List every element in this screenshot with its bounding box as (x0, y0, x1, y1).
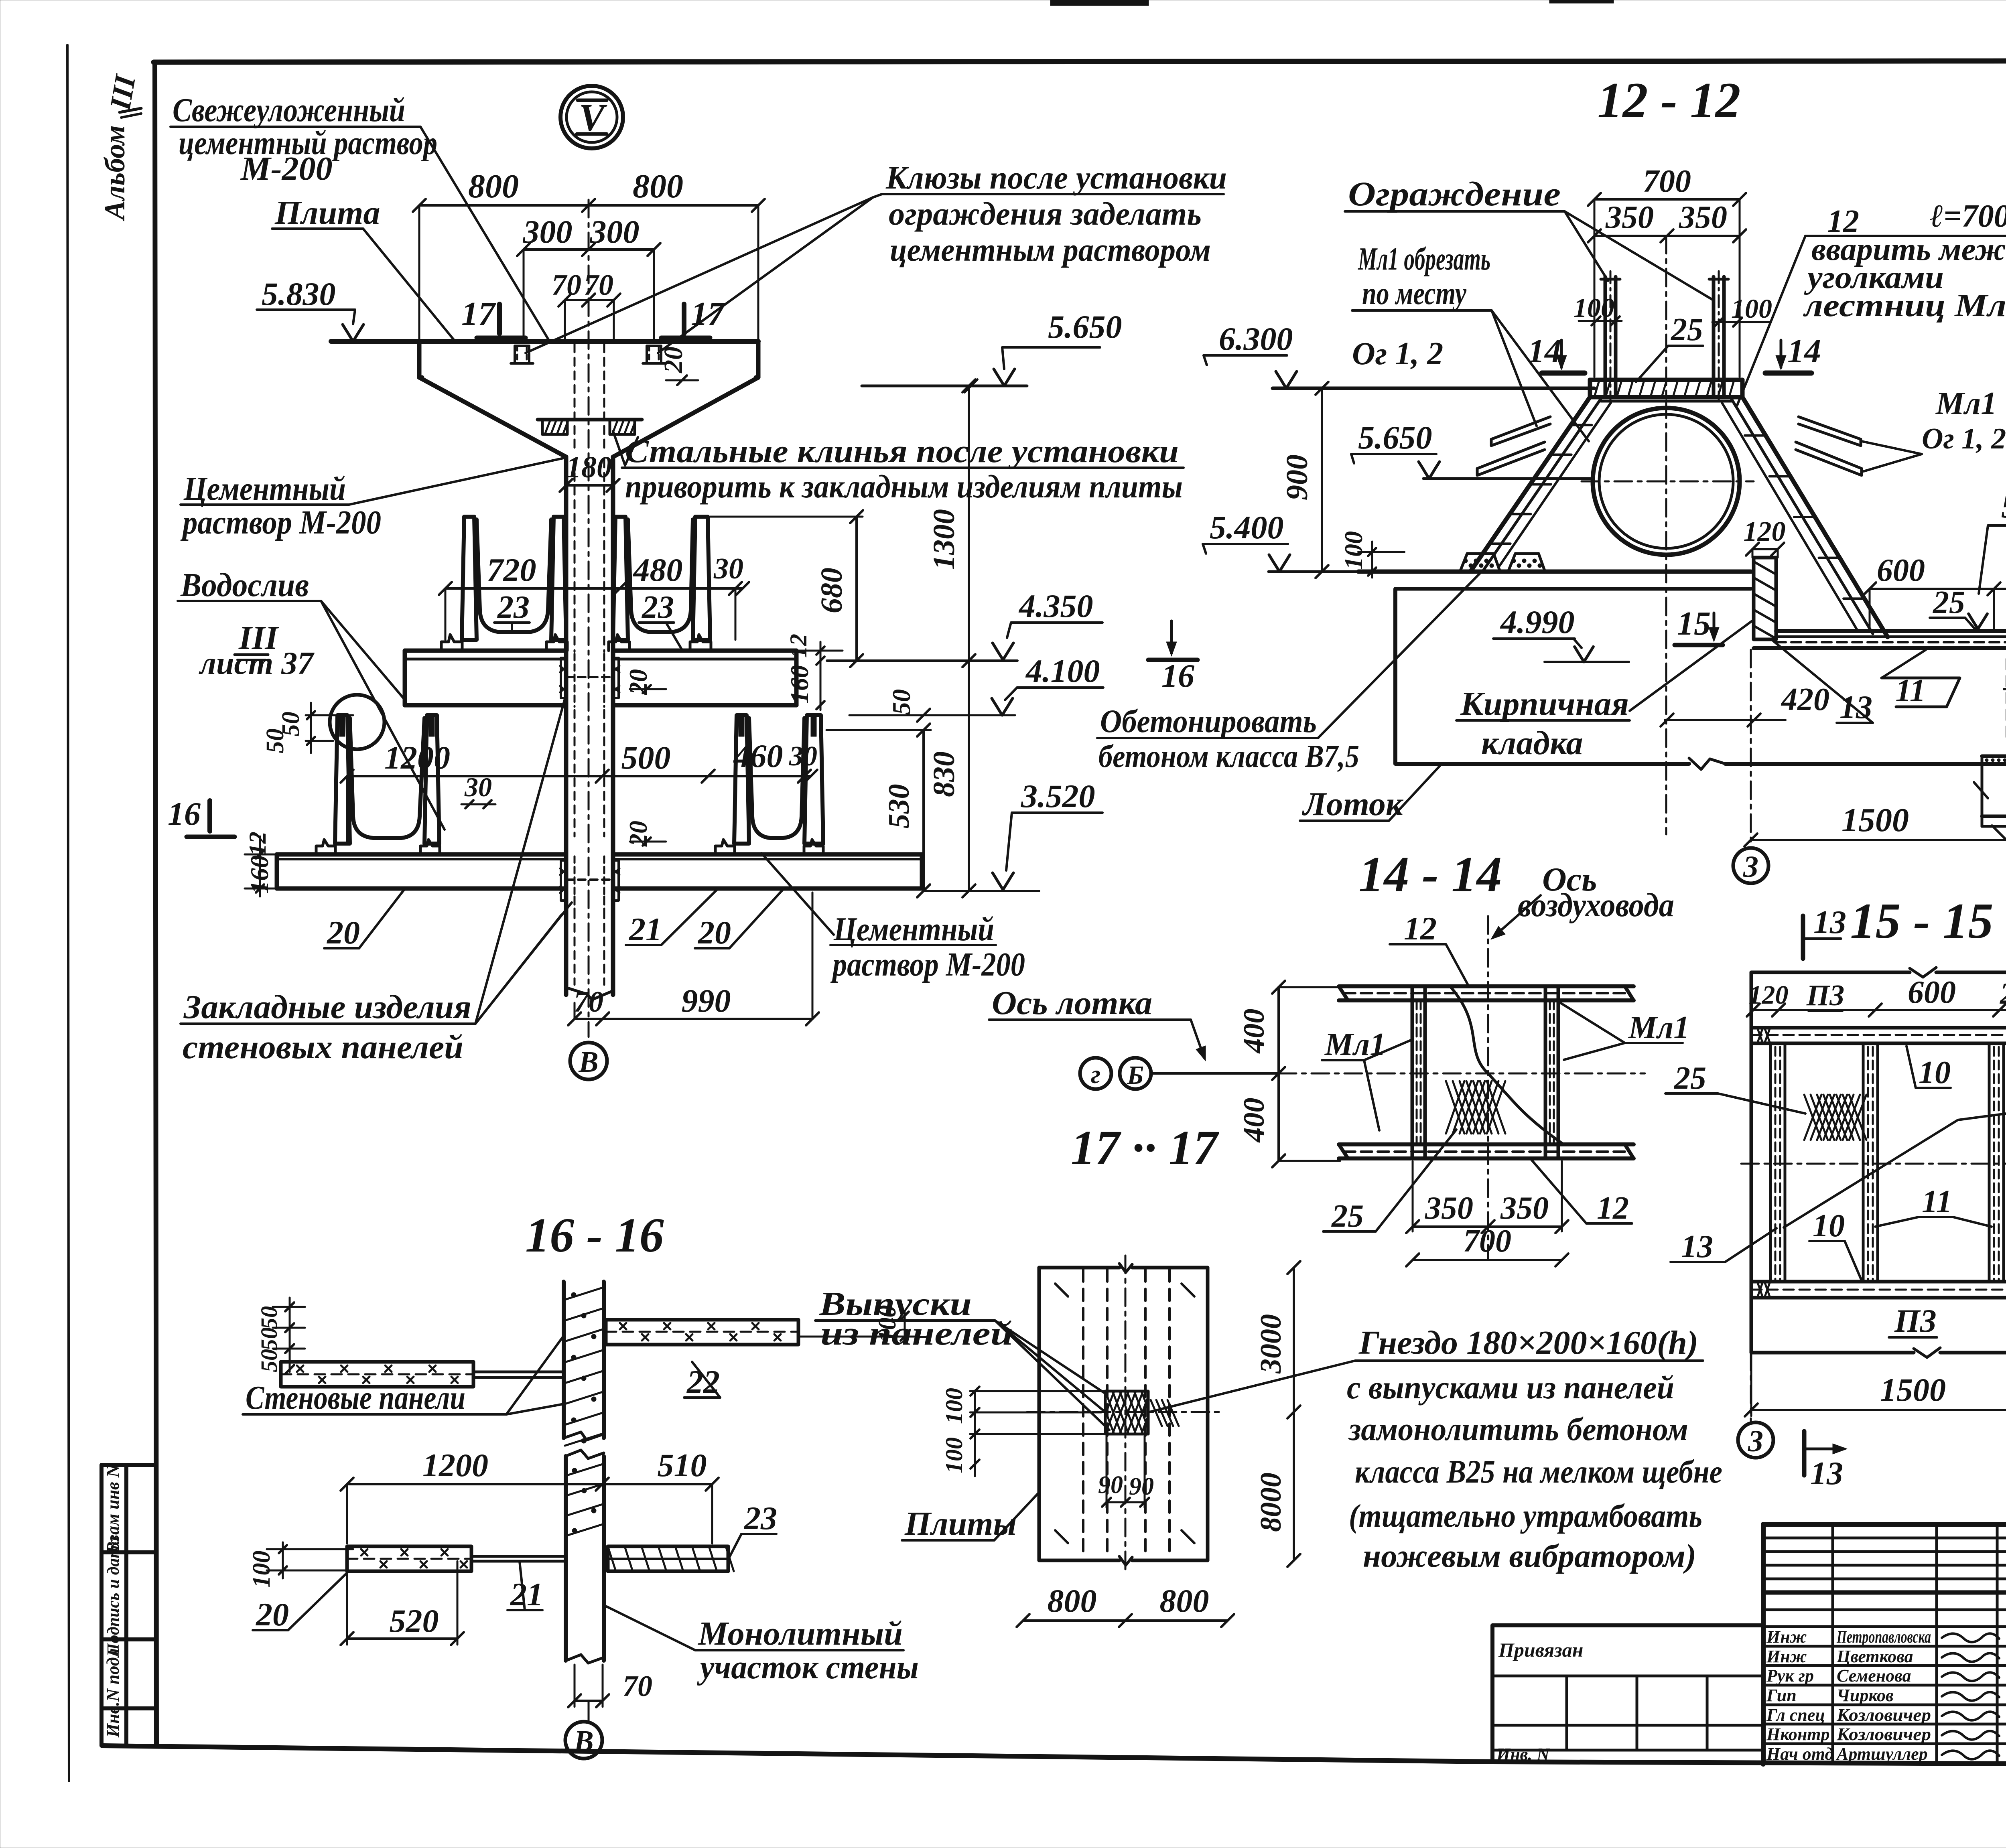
svg-text:600: 600 (1877, 553, 1925, 588)
svg-text:замонолитить бетоном: замонолитить бетоном (1348, 1411, 1688, 1447)
svg-text:700: 700 (1643, 164, 1691, 199)
svg-text:400: 400 (1238, 1098, 1271, 1143)
svg-text:30: 30 (464, 772, 492, 802)
svg-text:Клюзы после установки: Клюзы после установки (885, 159, 1227, 196)
svg-text:кладка: кладка (1481, 724, 1583, 762)
svg-text:М-200: М-200 (240, 150, 333, 187)
svg-text:800: 800 (468, 168, 519, 205)
svg-text:350: 350 (1500, 1191, 1549, 1226)
svg-text:21: 21 (629, 911, 662, 947)
svg-text:Стальные клинья после установк: Стальные клинья после установки (625, 433, 1179, 469)
svg-text:Лоток: Лоток (1302, 785, 1404, 823)
svg-text:Привязан: Привязан (1498, 1639, 1583, 1661)
svg-text:400: 400 (1238, 1009, 1271, 1054)
svg-text:520: 520 (390, 1603, 439, 1639)
svg-text:4.100: 4.100 (1025, 653, 1100, 689)
svg-text:25: 25 (1674, 1061, 1706, 1096)
svg-text:Ог 1, 2: Ог 1, 2 (1922, 422, 2006, 455)
svg-text:раствор М-200: раствор М-200 (830, 946, 1025, 983)
svg-text:Нач отд: Нач отд (1766, 1744, 1833, 1764)
svg-text:16: 16 (168, 795, 201, 832)
svg-text:8000: 8000 (1255, 1473, 1287, 1532)
svg-text:Гип: Гип (1766, 1686, 1797, 1705)
svg-text:раствор М-200: раствор М-200 (181, 504, 381, 541)
svg-text:50: 50 (887, 689, 916, 715)
svg-text:480: 480 (633, 552, 683, 588)
svg-text:350: 350 (1679, 200, 1727, 235)
svg-text:12: 12 (1404, 910, 1437, 947)
svg-text:Ог 1, 2: Ог 1, 2 (1352, 336, 1443, 371)
svg-text:350: 350 (1605, 200, 1654, 235)
svg-text:14: 14 (1528, 333, 1561, 370)
svg-text:Инж: Инж (1766, 1647, 1807, 1666)
svg-text:20: 20 (624, 821, 652, 847)
svg-text:Гнездо 180×200×160(h): Гнездо 180×200×160(h) (1358, 1324, 1698, 1361)
svg-text:800: 800 (1160, 1582, 1209, 1619)
svg-text:17: 17 (461, 295, 496, 333)
svg-text:12 - 12: 12 - 12 (1598, 73, 1741, 128)
svg-text:23: 23 (744, 1500, 777, 1536)
svg-text:1200: 1200 (422, 1447, 488, 1483)
svg-text:ℓ=700: ℓ=700 (1930, 199, 2006, 234)
svg-text:16 - 16: 16 - 16 (525, 1208, 664, 1262)
svg-text:120: 120 (1744, 516, 1786, 547)
svg-text:Семенова: Семенова (1837, 1666, 1911, 1686)
svg-text:20: 20 (327, 914, 360, 951)
svg-text:720: 720 (487, 552, 536, 588)
svg-text:класса В25 на мелком щебне: класса В25 на мелком щебне (1355, 1453, 1722, 1490)
svg-text:12: 12 (244, 832, 271, 856)
svg-text:100: 100 (941, 1437, 967, 1473)
svg-text:ножевым вибратором): ножевым вибратором) (1363, 1538, 1696, 1574)
svg-text:Цементный: Цементный (833, 911, 994, 948)
svg-text:Рук гр: Рук гр (1766, 1666, 1814, 1686)
svg-text:П3: П3 (1894, 1302, 1937, 1339)
svg-text:Козловичер: Козловичер (1836, 1705, 1931, 1725)
svg-text:25: 25 (1331, 1199, 1364, 1234)
svg-text:11: 11 (1895, 673, 1926, 708)
svg-text:11: 11 (1922, 1184, 1952, 1219)
svg-text:3: 3 (1743, 850, 1758, 884)
svg-text:100: 100 (941, 1388, 967, 1424)
svg-text:Мл1: Мл1 (1935, 386, 1997, 421)
svg-text:Обетонировать: Обетонировать (1100, 703, 1317, 739)
svg-text:П3: П3 (1806, 979, 1845, 1012)
svg-text:25: 25 (1933, 585, 1965, 620)
svg-text:70: 70 (623, 1670, 652, 1703)
svg-text:23: 23 (642, 590, 674, 625)
svg-text:5.400: 5.400 (1210, 509, 1284, 546)
svg-text:12: 12 (1597, 1191, 1629, 1226)
svg-text:Чирков: Чирков (1837, 1686, 1894, 1705)
svg-text:Монолитный: Монолитный (697, 1615, 903, 1652)
svg-text:420: 420 (1781, 682, 1829, 717)
svg-text:ограждения заделать: ограждения заделать (889, 195, 1202, 232)
svg-text:5.650: 5.650 (1048, 308, 1122, 345)
svg-text:3000: 3000 (1255, 1314, 1287, 1374)
svg-text:100: 100 (1731, 293, 1772, 324)
svg-text:200: 200 (2000, 977, 2006, 1010)
svg-text:14 - 14: 14 - 14 (1359, 847, 1502, 903)
svg-text:5.830: 5.830 (262, 276, 336, 312)
svg-text:23: 23 (497, 590, 530, 625)
svg-text:В: В (573, 1725, 593, 1758)
svg-text:Ограждение: Ограждение (1348, 174, 1561, 213)
svg-text:10: 10 (1813, 1208, 1845, 1243)
svg-text:Инв. N: Инв. N (1496, 1745, 1550, 1764)
svg-text:20: 20 (256, 1596, 289, 1633)
svg-text:Альбом: Альбом (99, 125, 131, 221)
svg-text:лестниц Мл1: лестниц Мл1 (1803, 288, 2006, 323)
svg-text:Свежеуложенный: Свежеуложенный (173, 91, 405, 129)
svg-text:лист 37: лист 37 (199, 646, 315, 681)
svg-text:Нконтр: Нконтр (1766, 1724, 1830, 1744)
svg-text:Артшуллер: Артшуллер (1835, 1744, 1928, 1764)
svg-text:Петропавловска: Петропавловска (1836, 1627, 1931, 1647)
svg-text:бетоном класса В7,5: бетоном класса В7,5 (1098, 739, 1359, 774)
svg-text:3.520: 3.520 (1021, 778, 1095, 814)
svg-text:Цветкова: Цветкова (1836, 1647, 1913, 1666)
svg-text:цементным раствором: цементным раствором (890, 231, 1211, 268)
svg-text:830: 830 (927, 751, 961, 797)
svg-text:6.300: 6.300 (1219, 321, 1293, 357)
svg-text:15 - 15: 15 - 15 (1850, 893, 1994, 949)
svg-text:(тщательно утрамбовать: (тщательно утрамбовать (1349, 1497, 1702, 1534)
svg-text:17: 17 (691, 295, 726, 333)
svg-text:Мл1: Мл1 (1324, 1027, 1386, 1062)
svg-text:В: В (578, 1046, 598, 1079)
svg-text:990: 990 (682, 982, 731, 1019)
svg-text:воздуховода: воздуховода (1518, 886, 1674, 924)
svg-text:700: 700 (1463, 1223, 1511, 1259)
svg-text:1200: 1200 (384, 739, 450, 776)
svg-text:100: 100 (1339, 531, 1368, 570)
svg-text:900: 900 (1280, 454, 1314, 500)
svg-text:50: 50 (256, 1349, 282, 1372)
svg-text:5. 09: 5. 09 (2001, 488, 2006, 525)
svg-text:680: 680 (815, 568, 849, 613)
svg-text:Мл1: Мл1 (1628, 1010, 1689, 1045)
svg-text:Гл спец: Гл спец (1766, 1705, 1825, 1725)
svg-text:Б: Б (1127, 1061, 1144, 1090)
svg-text:Закладные изделия: Закладные изделия (183, 988, 471, 1026)
svg-text:4.990: 4.990 (1500, 604, 1575, 640)
svg-text:1500: 1500 (1880, 1371, 1946, 1408)
svg-text:1500: 1500 (1842, 801, 1909, 839)
svg-text:из панелей: из панелей (820, 1315, 1013, 1352)
svg-text:30: 30 (789, 741, 817, 772)
svg-text:Подпись и дата: Подпись и дата (104, 1537, 123, 1657)
svg-text:50: 50 (256, 1327, 282, 1351)
svg-text:с выпусками из панелей: с выпусками из панелей (1347, 1369, 1674, 1406)
svg-text:20: 20 (698, 914, 731, 951)
svg-text:стеновых панелей: стеновых панелей (183, 1028, 463, 1066)
svg-text:600: 600 (1908, 975, 1956, 1010)
svg-text:100: 100 (1574, 292, 1614, 323)
svg-text:90: 90 (1098, 1471, 1123, 1499)
svg-text:800: 800 (633, 168, 683, 205)
svg-text:530: 530 (883, 784, 916, 829)
svg-text:20: 20 (624, 669, 652, 695)
svg-text:13: 13 (1813, 904, 1846, 940)
svg-text:30: 30 (713, 552, 743, 585)
svg-text:90: 90 (1129, 1473, 1154, 1500)
svg-text:70: 70 (552, 269, 581, 302)
svg-text:по месту: по месту (1362, 276, 1466, 311)
svg-text:г: г (1091, 1060, 1100, 1089)
svg-text:100: 100 (248, 1551, 275, 1588)
svg-text:10: 10 (1919, 1055, 1951, 1090)
svg-text:приворить к закладным изделиям: приворить к закладным изделиям плиты (625, 468, 1183, 505)
svg-text:460: 460 (733, 738, 783, 774)
svg-text:5.650: 5.650 (1358, 419, 1432, 456)
svg-text:Инв.N подл: Инв.N подл (103, 1648, 123, 1738)
svg-text:15: 15 (1677, 605, 1711, 642)
svg-text:17 ·· 17: 17 ·· 17 (1071, 1121, 1220, 1175)
svg-text:Мл1 обрезать: Мл1 обрезать (1358, 241, 1490, 277)
svg-text:510: 510 (658, 1447, 707, 1483)
svg-text:Стеновые панели: Стеновые панели (246, 1379, 465, 1416)
svg-text:300: 300 (523, 213, 573, 250)
svg-text:Кирпичная: Кирпичная (1460, 685, 1629, 722)
svg-text:Ось лотка: Ось лотка (992, 984, 1152, 1022)
svg-text:III: III (104, 72, 142, 113)
svg-text:22: 22 (686, 1363, 720, 1400)
svg-text:16: 16 (1161, 657, 1194, 694)
svg-text:Инж: Инж (1766, 1627, 1807, 1647)
svg-text:800: 800 (1048, 1582, 1097, 1619)
svg-text:Плита: Плита (274, 194, 380, 231)
svg-text:160: 160 (785, 665, 814, 704)
svg-text:50: 50 (256, 1306, 282, 1329)
svg-text:4.350: 4.350 (1018, 588, 1093, 624)
svg-text:500: 500 (621, 739, 671, 776)
svg-text:участок стены: участок стены (696, 1649, 919, 1686)
svg-text:3: 3 (1748, 1424, 1763, 1458)
svg-text:12: 12 (785, 634, 812, 658)
svg-text:300: 300 (590, 213, 640, 250)
svg-text:25: 25 (1671, 312, 1703, 347)
svg-text:350: 350 (1425, 1191, 1473, 1226)
svg-text:50: 50 (262, 728, 289, 753)
svg-text:Козловичер: Козловичер (1836, 1724, 1931, 1744)
svg-text:Плиты: Плиты (904, 1505, 1017, 1542)
svg-text:120: 120 (1749, 980, 1789, 1010)
svg-text:21: 21 (510, 1576, 543, 1613)
svg-text:Цементный: Цементный (183, 470, 346, 507)
svg-text:13: 13 (1681, 1229, 1713, 1264)
svg-text:13: 13 (1810, 1455, 1843, 1491)
svg-text:Водослив: Водослив (180, 566, 309, 604)
svg-text:14: 14 (1787, 333, 1821, 370)
svg-text:1300: 1300 (927, 509, 961, 570)
